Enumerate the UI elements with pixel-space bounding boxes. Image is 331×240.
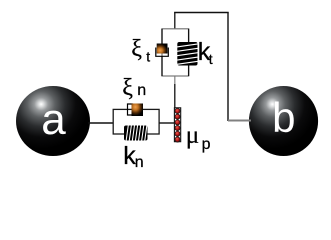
svg-text:n: n [137, 82, 146, 99]
parallel box kt/xit [162, 29, 189, 76]
damper xi_n bracket [128, 104, 134, 115]
svg-text:t: t [209, 51, 213, 67]
top wire horizontal [174, 12, 229, 14]
friction beads [175, 108, 180, 142]
wire box to friction [159, 122, 175, 124]
damper xi_t piston [157, 44, 168, 54]
svg-text:p: p [202, 136, 211, 153]
wire a to box [88, 122, 114, 124]
rods xit branch [161, 29, 163, 44]
damper xi_t cup [156, 48, 169, 57]
vertical wire below top box [174, 76, 176, 84]
right wire vertical [227, 13, 229, 122]
gray link to b [228, 120, 251, 122]
friction element frame [174, 108, 180, 142]
svg-text:μ: μ [186, 122, 199, 149]
sphere b [249, 86, 318, 156]
sphere a [16, 86, 90, 156]
svg-text:n: n [135, 154, 144, 171]
damper xi_n piston [132, 104, 144, 117]
svg-text:ξ: ξ [131, 36, 142, 62]
spring k_t [177, 42, 197, 66]
parallel box kn/xin [113, 109, 159, 134]
svg-text:b: b [272, 94, 295, 141]
rods kt branch [188, 29, 190, 42]
svg-text:ξ: ξ [122, 75, 133, 101]
svg-text:a: a [41, 95, 66, 144]
spring k_n [124, 126, 148, 141]
vertical wire above top box [174, 13, 176, 29]
svg-text:t: t [146, 49, 150, 65]
